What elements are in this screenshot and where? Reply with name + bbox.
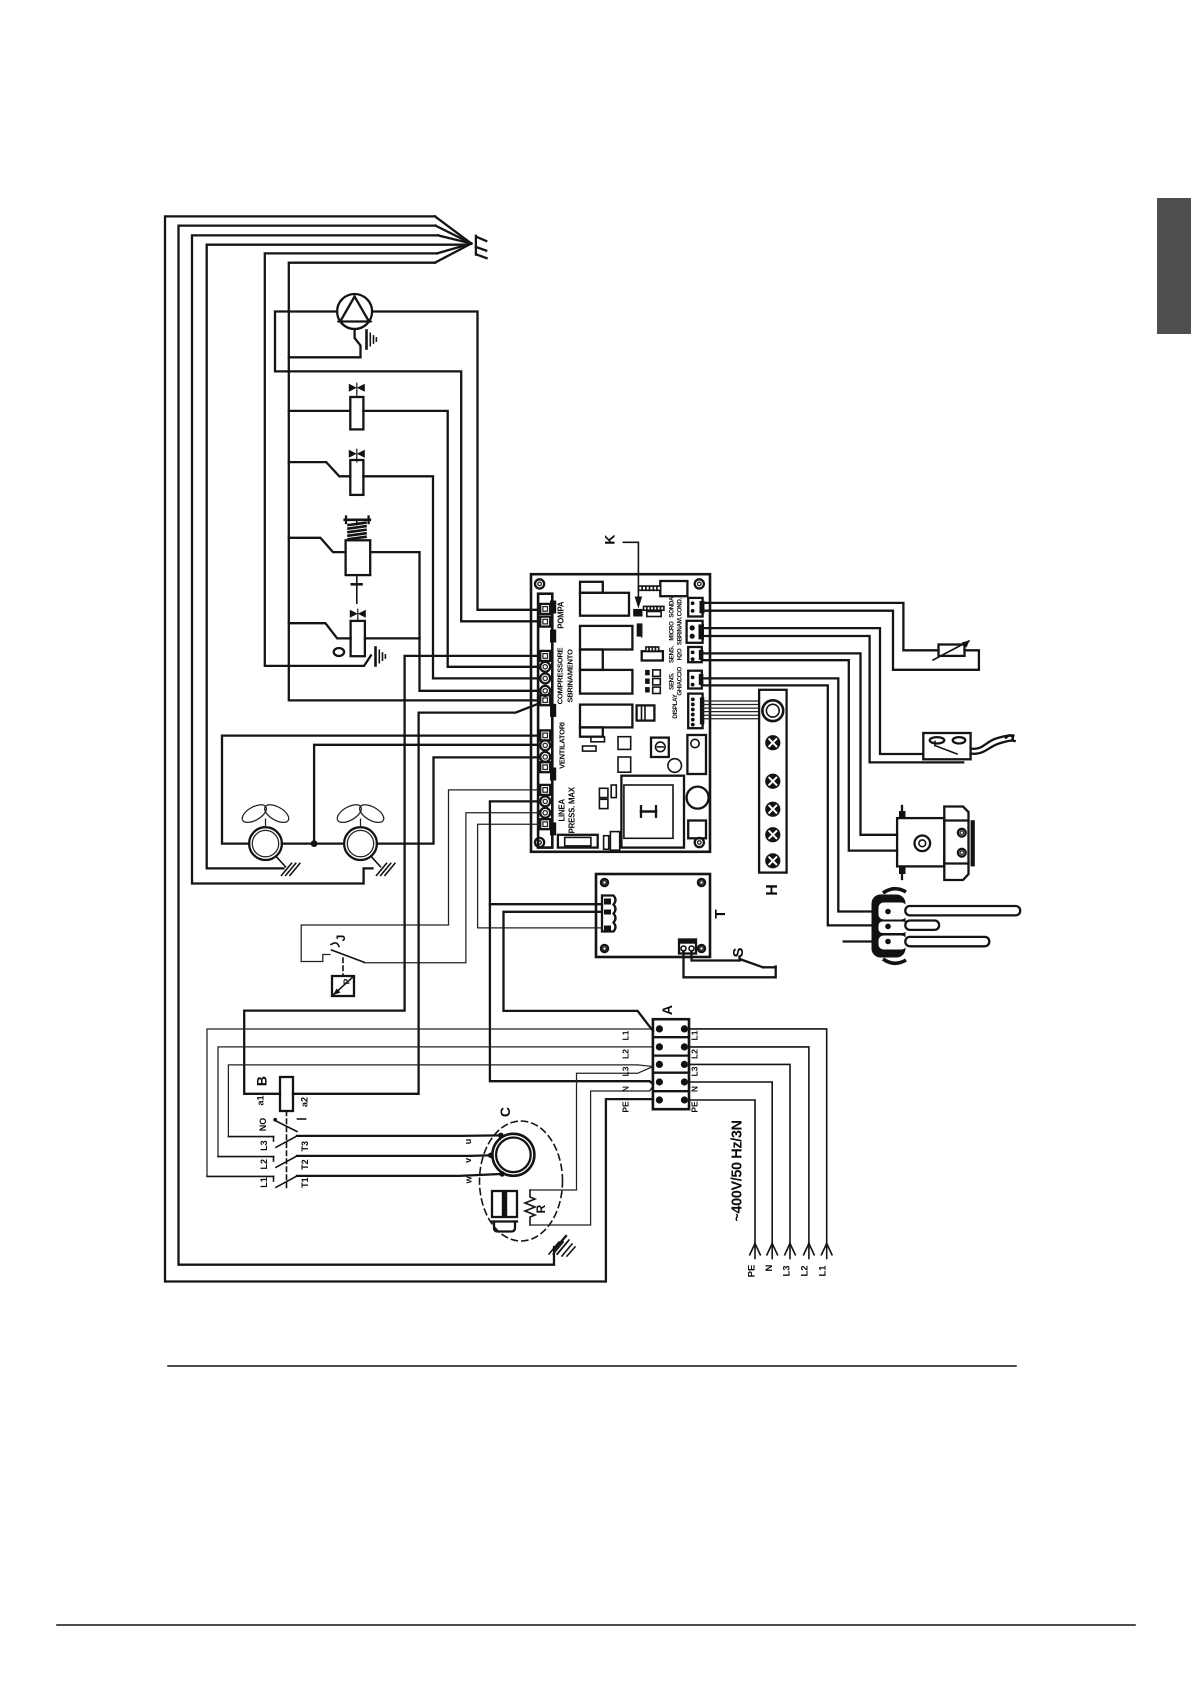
page tab marker xyxy=(1157,198,1191,334)
valve V2 body xyxy=(350,460,363,495)
wire bundle line 2 (x=178.5 riser to compressor ground) xyxy=(179,226,555,1265)
wire bundle line 1 (x=165 PE riser) xyxy=(165,216,653,1281)
heater prong 2 xyxy=(905,921,939,930)
heater prong 3 xyxy=(905,937,989,946)
svg-text:PE: PE xyxy=(621,1101,631,1113)
svg-text:N: N xyxy=(690,1086,700,1092)
valve V1 bowtie xyxy=(349,384,365,392)
fan M1 left wire to board VENTILATORI-1 xyxy=(222,736,538,844)
wire bundle line 3 (x=192 riser to fan2 ground) xyxy=(192,235,438,883)
valve V3 left wire with jog xyxy=(289,538,346,552)
valve V3 stem and crossbar xyxy=(356,575,358,603)
contactor NO aux contact xyxy=(273,1118,277,1122)
contactor B coil xyxy=(280,1077,293,1111)
board fuse xyxy=(558,835,598,848)
pump bottom wire to ground and common xyxy=(289,329,361,357)
board relay K4 block xyxy=(580,705,632,728)
svg-text:T: T xyxy=(712,909,729,918)
svg-text:POMPA: POMPA xyxy=(557,601,566,629)
feed L3 from A row3 xyxy=(228,1065,653,1137)
svg-text:SBRINAM.: SBRINAM. xyxy=(677,616,684,645)
svg-text:H2O: H2O xyxy=(677,648,684,660)
J switch blade xyxy=(332,950,365,962)
control board outline xyxy=(531,574,710,852)
connector DISPLAY xyxy=(688,694,702,729)
board relay K2 block xyxy=(580,626,632,650)
svg-text:L2: L2 xyxy=(621,1049,631,1059)
board resistor pairs xyxy=(645,670,650,675)
board screws xyxy=(535,579,544,588)
svg-text:L2: L2 xyxy=(800,1265,811,1276)
wire bundle line 5 (x=264.8 riser to valve O return) xyxy=(265,253,437,666)
fan M2 right wire to board VENTILATORI-3 xyxy=(377,757,538,843)
H big terminal xyxy=(762,700,783,721)
box T outline xyxy=(596,874,710,957)
feed L2 from A row2 xyxy=(218,1047,653,1157)
board buzzer xyxy=(668,759,682,773)
valve V3 body xyxy=(346,540,371,575)
valve V3 spring cap xyxy=(345,518,370,521)
board trimmer xyxy=(651,738,669,757)
switch S wires xyxy=(684,951,776,977)
svg-text:SENS.: SENS. xyxy=(669,672,676,690)
compressor ground symbol xyxy=(554,1236,566,1250)
micro sbrinam wires xyxy=(703,628,923,754)
T box screws xyxy=(601,879,608,886)
svg-text:u: u xyxy=(463,1139,473,1145)
board caps bottom left xyxy=(599,788,608,797)
compressor dashed oval xyxy=(480,1121,563,1241)
contactor coil a2 wire to board xyxy=(293,704,539,1094)
sensor B1 thermistor xyxy=(939,645,965,656)
valve O label xyxy=(334,648,344,656)
valve V1 right wire to board xyxy=(363,411,538,667)
valve V3 spring coil xyxy=(349,537,366,539)
wire bundle line 4 (x=206.7 riser to fan1 ground) xyxy=(207,245,468,869)
valve V1 left wire xyxy=(289,410,351,412)
heater prong 1 xyxy=(905,906,1020,915)
heater E1 connector body xyxy=(872,895,906,958)
board main chip I xyxy=(621,776,684,848)
wire T1 to motor w xyxy=(297,1174,502,1176)
J switch contact hook xyxy=(331,943,339,947)
resistor R zigzag xyxy=(525,1190,535,1225)
display ribbon wires xyxy=(703,700,759,702)
svg-text:L3: L3 xyxy=(782,1265,793,1276)
valve V2 left wire with jog xyxy=(289,462,351,476)
svg-text:L1: L1 xyxy=(818,1265,829,1277)
fan M2 xyxy=(344,827,377,860)
svg-text:L1: L1 xyxy=(621,1030,631,1040)
A right wire row1 to L1 arrow xyxy=(689,1029,827,1243)
svg-text:N: N xyxy=(621,1086,631,1092)
separator rule lower xyxy=(57,1624,1135,1626)
valve V2 bowtie xyxy=(349,450,365,458)
A block terminals xyxy=(656,1025,663,1032)
motor C circle xyxy=(492,1134,534,1176)
valve V4 body xyxy=(351,621,365,656)
pump P1 circle xyxy=(337,294,372,329)
T pin1 wire xyxy=(490,903,602,905)
svg-text:~400V/50 Hz/3N: ~400V/50 Hz/3N xyxy=(730,1120,746,1221)
contactor pole L2 xyxy=(218,1156,274,1158)
svg-text:B: B xyxy=(254,1076,270,1086)
svg-text:GHIACCIO: GHIACCIO xyxy=(677,667,684,696)
board K target component xyxy=(633,609,642,617)
fan M1 xyxy=(249,827,282,860)
svg-text:COMPRESSORE: COMPRESSORE xyxy=(556,647,565,704)
svg-text:NO: NO xyxy=(258,1118,268,1132)
pump left wire and loop to board POMPA-2 xyxy=(275,312,538,622)
wire T2 to motor v xyxy=(297,1154,491,1157)
compressore output to contactor coil a1 xyxy=(244,656,538,1094)
valve V2 right wire to board xyxy=(363,476,538,678)
pump ground symbol xyxy=(365,331,368,349)
valve V1 body xyxy=(350,397,363,429)
valve V4 bowtie xyxy=(350,610,366,618)
pressure switch P box xyxy=(332,976,354,996)
fan M2 ground xyxy=(372,857,381,867)
connector SENS GHIACCIO xyxy=(688,671,702,689)
A right wire row3 to L3 arrow xyxy=(689,1064,790,1242)
LINEA terminals xyxy=(540,785,550,795)
A right wire row2 to L2 arrow xyxy=(689,1047,809,1243)
svg-text:A: A xyxy=(659,1005,675,1015)
K pointer arrow xyxy=(623,542,638,599)
svg-text:L3: L3 xyxy=(259,1140,269,1151)
svg-text:SENS.: SENS. xyxy=(669,645,676,663)
fan M1 ground xyxy=(277,857,286,867)
connector MICRO SBRINAM xyxy=(687,621,703,643)
svg-text:P: P xyxy=(342,978,352,984)
label I xyxy=(641,810,656,813)
terminal block A outline xyxy=(653,1019,689,1109)
valve V4 ground symbol xyxy=(374,648,377,666)
svg-text:SBRINAMENTO: SBRINAMENTO xyxy=(566,649,575,702)
micro switch cable xyxy=(971,735,1014,749)
board IC1 xyxy=(618,737,631,750)
svg-text:PRESS. MAX: PRESS. MAX xyxy=(568,786,577,833)
contactor dashed actuator line xyxy=(286,1111,288,1188)
valve V3 right wire to board xyxy=(370,552,538,691)
svg-text:a2: a2 xyxy=(300,1097,310,1107)
sens ghiaccio wires to heater xyxy=(703,678,874,911)
capacitor body xyxy=(492,1191,517,1217)
pump right wire to board POMPA-1 xyxy=(372,312,538,610)
motor terminal dots xyxy=(498,1133,504,1139)
board relay K1 block xyxy=(580,582,603,593)
svg-text:J: J xyxy=(334,935,348,942)
fan junction node xyxy=(311,840,318,847)
svg-text:L2: L2 xyxy=(690,1049,700,1059)
compressor ground hatch xyxy=(549,1242,559,1254)
terminal LINEA-3 wire to J bottom xyxy=(364,813,538,963)
svg-text:v: v xyxy=(463,1158,473,1163)
valve V4 right stub xyxy=(365,637,420,639)
board edge relay xyxy=(687,735,706,774)
R bottom wire to A row4 xyxy=(530,1086,653,1225)
svg-text:L3: L3 xyxy=(621,1066,631,1076)
T box connector xyxy=(602,896,616,932)
svg-text:S: S xyxy=(730,947,747,957)
terminal LINEA-1 wire to J switch xyxy=(301,790,538,962)
svg-text:LINEA: LINEA xyxy=(558,799,567,822)
feed L1 from A row1 xyxy=(207,1029,653,1176)
VENTILATORI terminals xyxy=(540,730,550,740)
svg-text:L1: L1 xyxy=(690,1030,700,1040)
svg-text:K: K xyxy=(602,534,618,544)
connector SONDA COND xyxy=(688,598,702,617)
svg-text:VENTILATORI: VENTILATORI xyxy=(558,722,567,769)
svg-text:H: H xyxy=(764,884,781,896)
actuator M3 body xyxy=(897,818,944,866)
svg-text:N: N xyxy=(764,1264,775,1271)
board top-right relay xyxy=(660,581,687,596)
svg-text:T3: T3 xyxy=(300,1141,310,1152)
svg-text:T2: T2 xyxy=(300,1159,310,1170)
board IC2 xyxy=(618,757,631,772)
board relay K3 block xyxy=(580,670,632,694)
contactor pole L1 xyxy=(207,1175,274,1177)
svg-text:C: C xyxy=(497,1107,513,1117)
svg-text:w: w xyxy=(464,1175,474,1184)
board transformer xyxy=(637,705,655,720)
COMPRESSORE terminals xyxy=(540,651,550,661)
mains fork connector xyxy=(475,236,477,255)
POMPA terminals xyxy=(540,604,550,614)
sonda cond sensor loop xyxy=(703,603,939,650)
board connector bottom right xyxy=(688,821,706,839)
A right wire row5 to PE arrow xyxy=(689,1100,755,1243)
svg-text:COND.: COND. xyxy=(677,597,684,616)
valve V4 left wire with jog xyxy=(289,623,351,638)
capacitor sleeve xyxy=(492,1220,517,1222)
wire bundle line 6 (x=288.8 common riser) xyxy=(289,263,538,701)
switch S blade xyxy=(738,957,740,961)
T box bottom connector xyxy=(679,940,696,954)
svg-text:PE: PE xyxy=(747,1265,758,1278)
terminal LINEA-2 wire to A row4 xyxy=(490,801,653,1084)
terminal strip H outline xyxy=(759,690,787,873)
heater stub wire xyxy=(844,940,874,942)
J dashed link xyxy=(342,958,344,976)
H screw terminals xyxy=(766,736,780,750)
svg-text:R: R xyxy=(534,1204,548,1213)
connector SENS H2O xyxy=(688,647,702,662)
board terminal strip xyxy=(538,594,552,848)
micro switch S2 body xyxy=(923,733,970,759)
svg-text:T1: T1 xyxy=(300,1177,310,1188)
T pin3 wire xyxy=(478,824,602,928)
svg-text:MICRO: MICRO xyxy=(669,621,676,641)
T pin2 wire to A row1 xyxy=(504,912,654,1031)
svg-text:L2: L2 xyxy=(259,1159,269,1170)
svg-text:L1: L1 xyxy=(259,1177,269,1188)
sens H2O wires to actuator xyxy=(703,653,897,834)
svg-text:SONDA: SONDA xyxy=(669,596,676,618)
svg-text:PE: PE xyxy=(690,1101,700,1113)
A right wire row4 to N arrow xyxy=(689,1082,772,1243)
wire T3 to motor u xyxy=(297,1134,501,1137)
board big cap xyxy=(687,787,709,809)
svg-text:a1: a1 xyxy=(256,1095,266,1105)
R top wire to A row3 xyxy=(530,1067,653,1191)
separator rule upper xyxy=(168,1365,1016,1367)
board small parts mid xyxy=(638,624,642,636)
svg-text:L3: L3 xyxy=(690,1066,700,1076)
svg-text:DISPLAY: DISPLAY xyxy=(672,693,679,718)
fan junction wire to board VENTILATORI-2 xyxy=(282,842,344,844)
supply arrows xyxy=(821,1244,826,1255)
J switch bottom lead xyxy=(301,955,330,962)
contactor pole L3 xyxy=(228,1136,273,1138)
